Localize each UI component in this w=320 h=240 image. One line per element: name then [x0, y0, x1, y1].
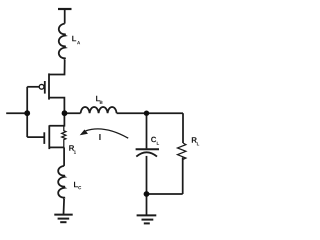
resistor RL [178, 143, 186, 160]
wire M2 gate lead [27, 136, 44, 138]
label R1 sub [74, 151, 76, 154]
wire node A to LB [65, 112, 81, 114]
wire LC to ground [63, 199, 66, 214]
wire RL bottom [182, 158, 184, 195]
wire input stub [6, 112, 27, 114]
capacitor CL curved plate [136, 152, 157, 156]
transistor M1 gate bubble [39, 84, 44, 89]
inductor LA [59, 24, 66, 60]
transistor M2 gate bar [43, 132, 45, 144]
wire M1 gate to left rail [27, 86, 39, 88]
label LB main [96, 96, 100, 101]
label LB sub [100, 101, 103, 104]
label RL main [192, 137, 197, 142]
node B junction dot [144, 111, 149, 116]
supply rail bar [58, 8, 72, 10]
bottom junction dot [144, 191, 150, 197]
label LA sub [77, 41, 80, 44]
transistor M1 channel [48, 73, 50, 99]
ground right [137, 214, 157, 216]
wire left gate rail [26, 87, 28, 137]
wire M1 source down to node A [49, 98, 64, 114]
ground left [54, 214, 72, 216]
transistor M1 gate bar [44, 81, 46, 94]
wire M2 source lead [49, 146, 64, 148]
left gate junction dot [24, 110, 30, 116]
node A junction dot [62, 110, 68, 116]
label CL main [151, 137, 156, 143]
wire M2 source to LC [63, 147, 65, 166]
wire node B down to CL [146, 113, 148, 148]
wire CL to bottom node [146, 156, 148, 194]
label CL sub [157, 142, 159, 145]
transistor M2 channel [48, 125, 50, 149]
capacitor CL top plate [136, 148, 159, 150]
label RL sub [197, 142, 199, 145]
wire LB to node B [117, 112, 147, 114]
wire bottom node to ground [146, 194, 148, 215]
label R1 main [69, 145, 74, 150]
wire node B to RL branch [147, 112, 184, 114]
inductor LB [81, 107, 117, 113]
current arrow I [86, 129, 129, 138]
label I [99, 134, 100, 140]
wire bottom rail [147, 193, 183, 195]
label LC main [74, 182, 78, 187]
inductor LC [58, 166, 65, 199]
wire supply bar to LA [64, 9, 66, 24]
resistor R1 [62, 126, 66, 148]
wire LA to M1 drain [49, 60, 65, 75]
label LA main [72, 36, 76, 41]
label LC sub [78, 186, 81, 189]
wire node A down to M2 drain [49, 113, 64, 126]
current arrow head [80, 130, 88, 136]
wire RL branch top [182, 113, 184, 143]
